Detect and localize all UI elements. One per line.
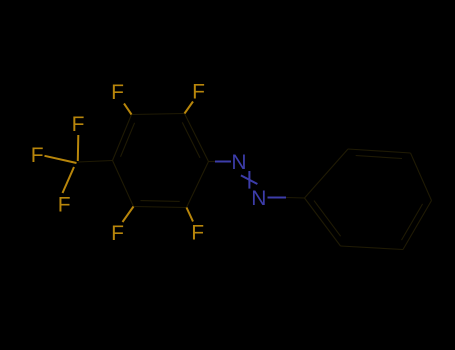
wire ring2 bond C11-C12 bbox=[403, 201, 432, 250]
wire bond N2-C8 carbon half bbox=[286, 197, 305, 200]
wire ring2 bond C12-C13 bbox=[341, 246, 404, 250]
wire ring1 bond C2-C3 bbox=[132, 114, 185, 115]
wire ring2 double bond inner C13-C8 bbox=[314, 201, 341, 237]
svg-text:F: F bbox=[192, 81, 205, 104]
wire ring1 double bond inner C3-C4 bbox=[182, 122, 200, 157]
wire ring1 bond C4-C5 bbox=[187, 162, 209, 208]
wire ring1 double bond inner C5-C6 bbox=[141, 200, 180, 203]
wire bond C2-F top-left bbox=[124, 104, 132, 115]
wire ring1 bond C5-C6 bbox=[134, 207, 187, 208]
wire bond C4-N1 carbon half bbox=[209, 161, 216, 163]
wire ring1 bond C6-C1 bbox=[113, 161, 134, 207]
wire bond C3-F top-right bbox=[185, 102, 194, 114]
wire bond C1-C7(CF3) bbox=[78, 161, 113, 163]
svg-text:F: F bbox=[191, 222, 204, 245]
svg-text:F: F bbox=[72, 113, 85, 136]
wire ring2 bond C10-C11 bbox=[411, 153, 432, 201]
wire ring1 bond C3-C4 bbox=[185, 114, 209, 162]
wire ring2 double bond inner C11-C12 bbox=[402, 204, 423, 240]
wire bond C7-F top bbox=[77, 135, 80, 161]
svg-text:N: N bbox=[231, 151, 246, 174]
wire bond C7-F left bbox=[45, 156, 77, 163]
wire bond C6-F bottom-left bbox=[123, 207, 134, 223]
wire bond N2-C8 nitrogen half bbox=[268, 197, 287, 199]
wire ring1 double bond inner C1-C2 bbox=[121, 123, 135, 157]
wire bond C5-F bottom-right bbox=[187, 208, 194, 222]
wire ring2 bond C8-C9 bbox=[305, 149, 349, 198]
svg-text:F: F bbox=[31, 144, 44, 167]
wire bond C4-N1 nitrogen half bbox=[215, 161, 231, 163]
svg-text:F: F bbox=[111, 222, 124, 245]
wire ring2 bond C13-C8 bbox=[305, 198, 341, 246]
wire azo N1=N2 crossed line 2 bbox=[241, 175, 258, 184]
wire bond C7-F bottom bbox=[63, 167, 75, 193]
wire ring1 bond C1-C2 bbox=[113, 115, 132, 161]
wire ring2 double bond inner C9-C10 bbox=[356, 156, 402, 159]
svg-text:F: F bbox=[58, 194, 71, 217]
svg-text:F: F bbox=[111, 81, 124, 104]
wire ring2 bond C9-C10 bbox=[348, 149, 411, 153]
svg-text:N: N bbox=[251, 187, 266, 210]
wire azo N1=N2 crossed line 1 bbox=[248, 171, 250, 189]
